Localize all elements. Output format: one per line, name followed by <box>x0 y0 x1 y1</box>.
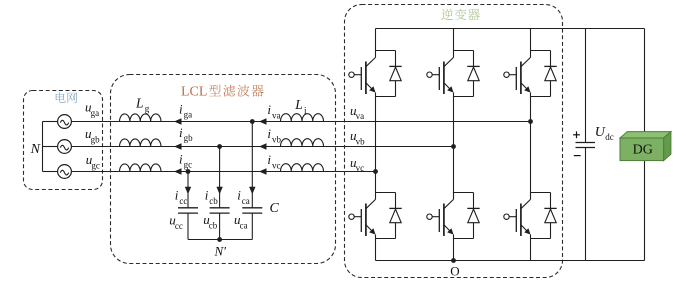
arrow i_gc <box>174 168 182 174</box>
wire leg 3 lower <box>530 239 532 261</box>
wire phase a <box>71 121 530 123</box>
svg-text:i: i <box>205 188 209 203</box>
svg-text:vb: vb <box>272 134 282 144</box>
junction phase a to leg 3 <box>528 119 533 124</box>
svg-text:ca: ca <box>242 196 250 206</box>
svg-text:i: i <box>179 101 183 116</box>
arrow i_va <box>259 118 267 124</box>
label LCL型滤波器 <box>181 85 264 100</box>
svg-text:ga: ga <box>91 108 100 118</box>
wire: neutral bus vertical <box>42 122 44 172</box>
svg-text:i: i <box>237 188 241 203</box>
dashed box: inverter (逆变器) <box>345 5 563 278</box>
wire capacitor branch b lower <box>219 213 221 239</box>
svg-text:cc: cc <box>175 221 183 231</box>
arrow i_vc <box>259 168 267 174</box>
svg-text:LCL: LCL <box>181 85 207 100</box>
svg-text:gc: gc <box>184 160 193 170</box>
junction node phase b tap <box>217 144 222 149</box>
svg-text:gb: gb <box>184 133 194 143</box>
transistor Q4 (bottom, with antiparallel diode) <box>427 192 480 239</box>
arrow i_cb <box>216 187 222 195</box>
wire capacitor common <box>188 239 252 241</box>
wire phase c <box>71 171 375 173</box>
wire leg 3 mid <box>530 97 532 193</box>
svg-text:i: i <box>179 151 183 166</box>
svg-text:va: va <box>356 111 365 121</box>
AC source phase a <box>58 115 72 129</box>
capacitor C_dc <box>576 142 596 144</box>
svg-text:i: i <box>267 126 271 141</box>
wire: stub to source b <box>43 146 58 148</box>
inductor Li phase c <box>281 164 324 172</box>
transistor Q1 (top, with antiparallel diode) <box>349 50 402 97</box>
svg-text:L: L <box>135 95 144 110</box>
AC source phase c <box>58 165 72 179</box>
svg-text:i: i <box>267 102 271 117</box>
svg-text:vc: vc <box>272 160 281 170</box>
wire leg 2 mid <box>453 97 455 193</box>
junction phase c to leg 1 <box>373 169 378 174</box>
svg-text:ga: ga <box>184 110 193 120</box>
wire capacitor branch c lower <box>187 213 189 239</box>
wire: stub to source a <box>43 121 58 123</box>
label 电网 <box>56 92 77 103</box>
svg-text:dc: dc <box>605 132 614 142</box>
svg-text:cb: cb <box>209 220 218 230</box>
wire capacitor branch c upper <box>187 172 189 208</box>
svg-text:gc: gc <box>91 160 100 170</box>
capacitor C phase c <box>178 207 198 209</box>
inductor Li phase a <box>281 114 324 122</box>
arrow i_cc <box>185 187 191 195</box>
AC source phase b <box>58 140 72 154</box>
inductor Lg phase b <box>120 139 162 147</box>
transistor Q5 (top, with antiparallel diode) <box>504 50 557 97</box>
svg-text:cc: cc <box>179 196 187 206</box>
inductor Li phase b <box>281 139 324 147</box>
svg-text:vc: vc <box>356 163 365 173</box>
junction node phase a tap <box>250 119 255 124</box>
svg-text:ca: ca <box>240 220 248 230</box>
wire: stub to source c <box>43 171 58 173</box>
capacitor C phase a <box>242 207 262 209</box>
wire leg 3 upper <box>530 29 532 51</box>
transistor Q2 (bottom, with antiparallel diode) <box>349 192 402 239</box>
DG source block <box>620 132 671 161</box>
wire capacitor branch b upper <box>219 147 221 208</box>
svg-text:i: i <box>267 152 271 167</box>
wire DC-link capacitor branch lower <box>585 148 587 261</box>
dashed box: LCL filter <box>111 75 336 264</box>
arrow i_ga <box>174 118 182 124</box>
svg-text:N′: N′ <box>214 244 227 259</box>
label 逆变器 <box>441 9 479 21</box>
wire capacitor branch a upper <box>251 122 253 208</box>
inductor Lg phase a <box>120 114 162 122</box>
wire phase b <box>71 146 453 148</box>
svg-text:L: L <box>294 97 303 112</box>
wire: negative DC rail <box>376 260 645 262</box>
wire leg 2 lower <box>453 239 455 261</box>
svg-text:gb: gb <box>91 134 101 144</box>
svg-text:C: C <box>270 201 280 216</box>
svg-text:i: i <box>179 125 183 140</box>
arrow i_ca <box>249 187 255 195</box>
wire DC-link capacitor branch upper <box>585 29 587 143</box>
node O junction <box>451 258 456 263</box>
svg-text:g: g <box>145 104 150 114</box>
polarity minus <box>574 155 581 157</box>
wire DC bus right <box>644 29 646 261</box>
capacitor C phase b <box>210 207 230 209</box>
transistor Q6 (bottom, with antiparallel diode) <box>504 192 557 239</box>
junction phase b to leg 2 <box>451 144 456 149</box>
dashed box: grid (电网) <box>24 91 103 190</box>
svg-text:i: i <box>175 188 179 203</box>
wire leg 2 upper <box>453 29 455 51</box>
arrow i_gb <box>174 143 182 149</box>
wire leg 1 lower <box>375 239 377 261</box>
arrow i_vb <box>259 143 267 149</box>
svg-text:N: N <box>30 142 41 157</box>
junction node phase c tap <box>186 169 191 174</box>
svg-text:DG: DG <box>633 143 653 158</box>
wire: positive DC rail <box>376 28 645 30</box>
wire leg 1 upper <box>375 29 377 51</box>
svg-text:U: U <box>595 125 606 140</box>
node N' junction <box>217 237 222 242</box>
svg-text:va: va <box>272 110 281 120</box>
svg-text:vb: vb <box>356 136 366 146</box>
svg-text:cb: cb <box>209 196 218 206</box>
transistor Q3 (top, with antiparallel diode) <box>427 50 480 97</box>
polarity plus <box>573 134 580 136</box>
inductor Lg phase c <box>120 164 162 172</box>
wire leg 1 mid <box>375 97 377 193</box>
svg-text:O: O <box>450 263 459 278</box>
wire capacitor branch a lower <box>251 213 253 239</box>
